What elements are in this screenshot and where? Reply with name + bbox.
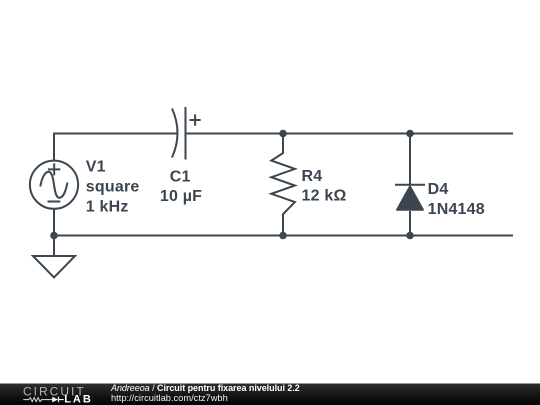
wire bottom rail	[54, 235, 513, 237]
diode D4 triangle	[397, 187, 423, 210]
svg-text:R4: R4	[302, 168, 323, 185]
svg-text:LAB: LAB	[64, 393, 93, 405]
capacitor C1	[172, 109, 178, 158]
node junction R4 top	[279, 130, 287, 138]
node junction D4 bottom	[406, 232, 414, 240]
wire top-left vertical and top rail left segment (V1 to C1)	[54, 134, 177, 162]
node junction V1/ground	[50, 232, 58, 240]
logo diode symbol	[52, 397, 58, 403]
svg-text:http://circuitlab.com/ctz7wbh: http://circuitlab.com/ctz7wbh	[111, 393, 228, 403]
node junction R4 bottom	[279, 232, 287, 240]
svg-text:10 µF: 10 µF	[160, 188, 202, 205]
diode D4 cathode bar	[395, 184, 425, 186]
resistor R4	[271, 134, 295, 236]
wire D4 bottom	[409, 211, 411, 236]
svg-text:C1: C1	[170, 168, 191, 185]
node junction D4 top	[406, 130, 414, 138]
wire V1 bottom to bottom rail	[53, 209, 55, 236]
logo resistor squiggle	[23, 398, 52, 402]
footer bar	[0, 384, 540, 405]
svg-text:12 kΩ: 12 kΩ	[302, 188, 347, 205]
svg-text:Andreeoa / Circuit pentru fixa: Andreeoa / Circuit pentru fixarea nivelu…	[110, 383, 300, 393]
svg-text:D4: D4	[428, 181, 449, 198]
svg-text:square: square	[86, 178, 140, 195]
ground	[33, 256, 75, 278]
svg-text:1N4148: 1N4148	[428, 201, 485, 218]
svg-text:V1: V1	[86, 158, 106, 175]
wire ground stem	[53, 236, 55, 257]
svg-text:1 kHz: 1 kHz	[86, 198, 129, 215]
wire D4 top	[409, 134, 411, 185]
voltage source V1	[30, 161, 78, 209]
wire top rail right segment (C1 right plate to end)	[186, 133, 514, 135]
